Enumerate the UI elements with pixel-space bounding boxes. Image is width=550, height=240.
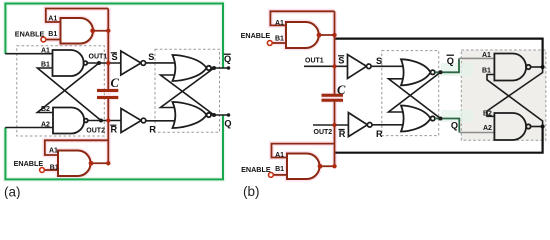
wire black feedback U15 output to top border (b) (336, 39, 543, 67)
junction U10 output on bus (b) (332, 164, 336, 168)
terminal ENABLE top (a) (41, 37, 46, 42)
svg-text:B1: B1 (275, 166, 284, 173)
wire ENABLE to B1 of U9 (b) (272, 42, 286, 44)
output dot of U10 (318, 164, 323, 169)
nand U1 (a) top, inputs A1 B1, output OUT1 (52, 50, 87, 76)
svg-text:C: C (111, 76, 120, 90)
wire A1 feedback loop of red nand U5 (a) (46, 9, 109, 23)
wire R to NOR U14 (b) (372, 124, 406, 126)
svg-text:B2: B2 (483, 111, 492, 118)
wire A1 input of NAND U1 from border (a) (5, 53, 52, 55)
wire A1 feedback loop of red nand U6 (a) bottom (45, 140, 109, 155)
glow of red net (b) (270, 11, 343, 179)
wire NOR feedback to U13 lower input (b) (389, 79, 441, 119)
nor U14 (b) bottom, output Q (401, 106, 435, 132)
red nand U9 (b) top, inputs A1 B1 (286, 22, 319, 48)
svg-text:B2: B2 (41, 106, 50, 113)
junction U16 output (b) (541, 124, 545, 128)
svg-text:S: S (112, 52, 118, 62)
wire A1 feedback loop of red nand U10 (b) bottom (272, 144, 335, 158)
wire A2 gray into NAND U16 (b) (459, 132, 494, 134)
wire OUT1 stub (b) (304, 65, 348, 67)
svg-text:B1: B1 (41, 62, 50, 69)
wire Q output exits border (a) (211, 114, 229, 116)
junction Q (a) (212, 113, 216, 117)
wire S to NOR U7 (a) (146, 62, 178, 64)
junction Qbar (b) (439, 70, 443, 74)
red bus net with capacitor (a) (107, 9, 109, 164)
junction U6 output on bus (a) (106, 161, 110, 165)
nor U13 (b) top, output Qbar (401, 59, 435, 85)
wire output of U6 to bus (a) (90, 162, 108, 164)
junction U15 output (b) (541, 65, 545, 69)
svg-text:A1: A1 (482, 52, 491, 59)
output dot of U6 (89, 161, 94, 166)
svg-text:A1: A1 (41, 48, 50, 55)
svg-text:C: C (337, 83, 346, 97)
junction U9 output on bus (b) (332, 33, 336, 37)
terminal Q (a) (227, 113, 231, 117)
artifact tint band near Q (b) (441, 110, 473, 122)
artifact tint band near Qbar (b) (441, 63, 473, 76)
svg-text:(b): (b) (243, 184, 260, 199)
svg-text:A1: A1 (275, 20, 284, 27)
terminal ENABLE bottom (b) (269, 173, 274, 178)
junction bus-OUT2 (a) (106, 118, 110, 122)
wire Qbar output exits border (a) (211, 67, 229, 69)
wire B1 cross-couple (b) (487, 75, 543, 127)
junction Qbar (a) (212, 66, 216, 70)
red nand U10 (b) bottom, inputs A1 B1 (287, 154, 320, 180)
svg-text:OUT2: OUT2 (314, 129, 333, 136)
svg-text:R: R (376, 129, 383, 139)
inverter U4 (a) Rbar (121, 109, 146, 133)
svg-text:R: R (149, 125, 156, 135)
output dot of U9 (317, 33, 322, 38)
red bus net with capacitor (b) (334, 11, 336, 166)
wire green feedback Q to A2 (a) (5, 115, 223, 179)
junction bus-OUT1 (a) (106, 61, 110, 65)
wire OUT2 net to inverter U4 (a) (88, 120, 121, 122)
wire output of U9 to bus (b) (318, 34, 335, 36)
svg-text:R: R (111, 125, 118, 135)
nand U2 (a) bottom, inputs B2 A2, output OUT2 (53, 108, 88, 134)
svg-text:Q: Q (224, 119, 231, 129)
wire output of U10 to bus (b) (319, 165, 335, 167)
dashed box around NAND latch (a) (17, 46, 105, 136)
wire U15 output to border (b) (531, 66, 543, 68)
svg-text:OUT1: OUT1 (305, 58, 324, 65)
svg-text:A1: A1 (49, 147, 58, 154)
wire NOR feedback Q to U7 lower input (a) (161, 75, 215, 115)
svg-text:ENABLE: ENABLE (241, 31, 271, 40)
wire R to NOR U8 (a) (146, 120, 178, 122)
svg-text:ENABLE: ENABLE (241, 165, 271, 174)
wire green feedback Qbar to A1 (a) (5, 4, 223, 69)
svg-text:B1: B1 (275, 36, 284, 43)
dashed box around NAND latch (b) (461, 50, 546, 140)
wire output of U5 to bus (a) (92, 30, 108, 32)
junction bus-OUT2 (b) (332, 123, 336, 127)
inverter U11 (b) Sbar (348, 55, 372, 79)
wire OUT1 net to inverter U3 (a) (87, 62, 120, 64)
wire A1 gray into NAND U15 (b) (459, 57, 495, 59)
wire B2 cross-couple from OUT1 junction (a) (37, 63, 99, 113)
svg-text:ENABLE: ENABLE (14, 159, 44, 168)
red nand U6 (a) bottom, inputs A1 B1 (58, 151, 91, 177)
terminal ENABLE top (b) (267, 41, 272, 46)
glow of green net (a) (5, 4, 223, 180)
svg-text:B1: B1 (50, 164, 59, 171)
svg-text:S: S (148, 52, 154, 62)
wire S to NOR U13 (b) (371, 65, 406, 67)
wire NOR feedback Qbar to U8 upper input (a) (161, 68, 215, 108)
junction OUT1 (a) (97, 61, 101, 65)
svg-text:S: S (376, 56, 382, 66)
capacitor C (a) plates (97, 91, 118, 98)
inverter U12 (b) Rbar (348, 113, 372, 137)
svg-text:ENABLE: ENABLE (15, 29, 45, 38)
wire B2 cross-couple (b) (487, 67, 543, 116)
svg-text:B1: B1 (482, 68, 491, 75)
nor U7 (a) top, output Qbar (173, 55, 212, 81)
inverter U3 (a) Sbar (121, 51, 146, 75)
svg-text:Q: Q (447, 56, 454, 66)
wire ENABLE to B1 of U5 (a) (46, 39, 61, 41)
svg-text:OUT2: OUT2 (86, 127, 105, 134)
wire black feedback U16 output to bottom border (b) (336, 127, 543, 153)
capacitor C (b) plates (322, 95, 344, 100)
wire B1 cross-couple from OUT2 junction (a) (37, 68, 101, 121)
junction OUT2 (a) (99, 119, 103, 123)
wire Qbar green to NAND latch (b) (435, 58, 459, 72)
svg-text:A2: A2 (41, 122, 50, 129)
wire A1 feedback loop of red nand U9 (b) (270, 11, 334, 25)
output dot of U5 (90, 28, 95, 33)
wire ENABLE to B1 of U6 (a) (44, 169, 58, 171)
red nand U5 (a) top, inputs A1 B1 (61, 18, 94, 44)
svg-text:B1: B1 (48, 31, 57, 38)
svg-text:Q: Q (224, 54, 231, 64)
dashed box around NOR latch (b) (382, 51, 439, 136)
wire U16 output to border (b) (531, 126, 543, 128)
svg-text:A1: A1 (48, 15, 57, 22)
junction Q (b) (439, 117, 443, 121)
dashed box around NOR latch (a) (155, 49, 220, 132)
nand U15 (b) top, inputs A1 B1 (494, 54, 530, 81)
wire OUT2 stub (b) (313, 124, 348, 126)
nor U8 (a) bottom, output Q (173, 102, 212, 128)
svg-text:R: R (339, 129, 346, 139)
terminal ENABLE bottom (a) (40, 168, 45, 173)
svg-text:S: S (338, 55, 344, 65)
nand U16 (b) bottom, inputs B2 A2 (494, 113, 530, 140)
junction U5 output on bus (a) (106, 29, 110, 33)
glow of red net (a) (44, 9, 118, 177)
svg-text:(a): (a) (4, 185, 21, 200)
junction bus-OUT1 (b) (332, 64, 336, 68)
terminal Qbar (a) (227, 66, 231, 70)
wire ENABLE to B1 of U10 (b) (273, 174, 287, 176)
svg-text:A1: A1 (275, 152, 284, 159)
wire NOR feedback to U14 upper input (b) (389, 72, 441, 112)
svg-text:OUT1: OUT1 (89, 54, 108, 61)
wire Q green to NAND latch (b) (435, 119, 459, 133)
svg-text:A2: A2 (483, 125, 492, 132)
svg-text:Q: Q (451, 120, 458, 130)
wire A2 input of NAND U2 from border (a) (5, 127, 53, 129)
